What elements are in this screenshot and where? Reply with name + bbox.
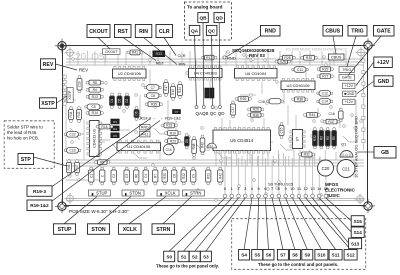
transistor Q1	[340, 141, 353, 157]
wire R19-3	[52, 119, 151, 187]
svg-text:R35: R35	[151, 103, 157, 107]
connector strip XSTP	[67, 88, 73, 103]
callout CLR	[156, 25, 173, 38]
svg-text:10: 10	[290, 186, 295, 191]
diode D3	[111, 119, 119, 124]
svg-text:TRIG: TRIG	[342, 68, 351, 72]
callout S5	[252, 250, 263, 261]
svg-text:STUP: STUP	[58, 227, 72, 233]
callout S11	[329, 250, 342, 261]
component R21 bottom row	[206, 167, 211, 185]
svg-text:QA: QA	[191, 28, 199, 34]
transistor Q2	[207, 143, 217, 148]
svg-text:D3: D3	[113, 120, 117, 124]
svg-text:(C) 2006 MUSIC FROM OUTER SPAC: (C) 2006 MUSIC FROM OUTER SPACE	[286, 48, 348, 52]
svg-text:D8: D8	[185, 139, 189, 143]
svg-text:R27: R27	[322, 75, 328, 79]
internal label STUP	[89, 190, 111, 196]
svg-text:C8: C8	[151, 94, 155, 98]
svg-text:GB: GB	[381, 150, 389, 156]
svg-text:R29: R29	[322, 68, 328, 72]
resistor R27	[317, 74, 333, 79]
svg-text:R19-3 →: R19-3 →	[140, 115, 156, 120]
svg-text:GND: GND	[378, 79, 390, 85]
svg-text:No hole on PCB.: No hole on PCB.	[7, 136, 39, 141]
svg-text:C5: C5	[91, 105, 95, 109]
svg-text:CBUS: CBUS	[331, 56, 342, 60]
wire S7	[272, 198, 283, 250]
pad +12V b	[343, 99, 356, 104]
diode D5	[117, 93, 122, 108]
svg-text:C21: C21	[342, 166, 350, 171]
resistor R36	[248, 113, 264, 118]
svg-text:REV 03: REV 03	[249, 53, 265, 58]
svg-text:RST: RST	[118, 29, 129, 35]
svg-text:13: 13	[310, 186, 315, 191]
callout XCLK	[119, 224, 142, 235]
svg-text:C11: C11	[297, 68, 303, 72]
wire S8	[279, 198, 295, 250]
dashed box To analog board	[184, 2, 231, 40]
resistor R37	[323, 119, 340, 124]
svg-text:R49: R49	[201, 142, 205, 148]
svg-text:PCB SIZE W-6.30" X H-3.30": PCB SIZE W-6.30" X H-3.30"	[69, 209, 129, 214]
svg-text:R3: R3	[326, 136, 330, 140]
svg-text:R41: R41	[132, 51, 138, 55]
wire XSTP	[57, 96, 68, 103]
wire R19-1and2	[52, 121, 160, 202]
capacitor C12	[317, 91, 333, 97]
svg-text:+12V: +12V	[345, 84, 354, 88]
callout CKOUT	[87, 25, 110, 38]
callout RIN	[135, 25, 152, 38]
fiducial bottom-right	[355, 194, 366, 205]
resistor R26	[248, 107, 264, 112]
svg-text:GATE: GATE	[342, 76, 353, 80]
pad CKOUT	[103, 49, 121, 55]
wire GATE	[348, 36, 381, 76]
svg-text:R10: R10	[170, 131, 176, 135]
resistor R3a	[319, 128, 324, 149]
svg-text:R4: R4	[93, 88, 97, 92]
svg-text:QD: QD	[216, 16, 224, 22]
callout QB	[198, 13, 209, 23]
svg-text:U2 CD40106: U2 CD40106	[118, 71, 142, 76]
svg-text:R37: R37	[328, 120, 334, 124]
svg-text:RND: RND	[227, 55, 236, 60]
capacitor C24 bottom	[100, 167, 105, 185]
capacitor C5	[85, 104, 103, 110]
internal label STRN	[183, 190, 205, 196]
resistor R18	[161, 123, 177, 128]
callout GATE	[374, 26, 395, 37]
svg-text:STON: STON	[91, 227, 106, 233]
svg-text:C22: C22	[69, 133, 75, 137]
callout +12V	[374, 57, 393, 68]
svg-text:C23: C23	[69, 149, 75, 153]
svg-text:R19-3: R19-3	[33, 189, 46, 195]
svg-text:D9: D9	[113, 134, 117, 138]
svg-text:S1: S1	[181, 254, 187, 259]
callout R19-1and2	[27, 200, 52, 211]
svg-text:R30: R30	[306, 56, 312, 60]
svg-text:QAQB QC QD: QAQB QC QD	[196, 111, 226, 116]
callout S6	[263, 250, 274, 261]
svg-text:QB: QB	[199, 16, 207, 22]
wire S2	[195, 198, 239, 251]
pad TRIG	[339, 67, 355, 73]
svg-text:▖ XCLK: ▖ XCLK	[159, 191, 176, 196]
component R7 bottom row	[153, 167, 158, 185]
capacitor C21 electrolytic	[337, 160, 355, 178]
callout QD	[214, 13, 225, 23]
resistor R35	[145, 102, 162, 107]
wire RST	[123, 38, 156, 61]
diode D9	[111, 133, 119, 138]
svg-text:R5: R5	[332, 136, 336, 140]
svg-text:CD4013 U3: CD4013 U3	[92, 129, 96, 148]
svg-text:REV: REV	[79, 67, 88, 72]
svg-text:S9: S9	[304, 253, 310, 258]
wire QA	[195, 35, 197, 106]
svg-text:QC: QC	[208, 28, 216, 34]
svg-text:CLR: CLR	[159, 29, 170, 35]
svg-text:S10: S10	[317, 253, 326, 258]
capacitor C18	[267, 99, 284, 104]
pad CBUS dark	[329, 54, 345, 60]
svg-text:14: 14	[317, 186, 322, 191]
dashed note box solder STP	[4, 121, 54, 169]
svg-text:R23: R23	[170, 139, 176, 143]
svg-text:CBUS: CBUS	[325, 29, 340, 35]
component R20 bottom row	[162, 167, 167, 185]
component C6 bottom row	[172, 167, 177, 185]
capacitor C15	[279, 123, 284, 139]
svg-text:C7: C7	[151, 86, 155, 90]
svg-text:To analog board: To analog board	[187, 5, 223, 10]
pad numbers 0-15	[224, 186, 329, 191]
wire RIN	[144, 38, 178, 65]
svg-text:S12: S12	[347, 253, 356, 258]
svg-text:U3 CD40106: U3 CD40106	[286, 83, 310, 88]
svg-text:R26: R26	[253, 108, 259, 112]
resistor R33 dark	[153, 51, 165, 57]
svg-text:R44: R44	[69, 111, 73, 117]
svg-text:R19-1&2: R19-1&2	[30, 203, 49, 208]
callout S14	[351, 227, 364, 238]
svg-text:XSTP: XSTP	[41, 101, 55, 107]
svg-text:R28: R28	[284, 56, 290, 60]
callout S0	[164, 251, 175, 262]
diode D10	[210, 88, 214, 98]
svg-text:TRIG: TRIG	[351, 29, 363, 35]
svg-text:S13: S13	[351, 241, 360, 246]
callout S9	[302, 250, 313, 261]
op IC U2 CD40106	[113, 66, 147, 80]
svg-text:U7: U7	[296, 137, 300, 142]
IC U7	[290, 130, 305, 149]
svg-text:15: 15	[324, 186, 329, 191]
pads QA QB QC QD	[195, 106, 222, 109]
mounting hole bottom-right	[361, 199, 375, 213]
IC U1 CD40106	[117, 140, 161, 153]
capacitor C16v	[339, 108, 344, 122]
fiducial top-right	[356, 47, 367, 58]
svg-text:C17: C17	[231, 106, 235, 112]
wire RND	[226, 36, 261, 57]
diode D1	[110, 93, 115, 108]
callout STON	[88, 224, 110, 235]
callout STP	[18, 154, 34, 165]
svg-text:R32: R32	[313, 135, 317, 141]
resistor R12	[202, 55, 217, 60]
svg-text:C6: C6	[172, 174, 176, 178]
IC U5 CD4514	[213, 127, 271, 153]
svg-text:ELECTRONIC: ELECTRONIC	[325, 188, 356, 193]
wire GB	[358, 151, 374, 153]
capacitor C7	[144, 85, 161, 91]
svg-text:R42: R42	[218, 173, 222, 179]
callout QA	[189, 25, 200, 35]
svg-text:S8: S8	[292, 253, 298, 258]
wire QB	[202, 23, 205, 106]
capacitor C20 electrolytic	[318, 160, 334, 176]
capacitor C22	[64, 132, 81, 138]
svg-text:These go to the control and po: These go to the control and pot panels.	[258, 262, 338, 267]
svg-text:R34: R34	[309, 113, 315, 117]
component R22 bottom row	[181, 167, 186, 185]
svg-text:CKOUT: CKOUT	[89, 29, 108, 35]
wire STRN	[163, 197, 192, 224]
svg-text:C15: C15	[280, 127, 284, 133]
component C1 bottom row	[89, 167, 94, 185]
svg-text:12: 12	[304, 186, 309, 191]
IC U3 CD4013	[87, 121, 102, 157]
resistor R38	[292, 97, 308, 102]
svg-text:R3: R3	[319, 136, 323, 140]
wire S1	[184, 198, 232, 251]
wire S4	[244, 198, 252, 250]
callout XSTP	[40, 98, 57, 109]
svg-text:R8: R8	[93, 81, 97, 85]
svg-text:R17: R17	[164, 85, 168, 91]
svg-text:← R19-1&2: ← R19-1&2	[160, 115, 182, 120]
svg-text:XCLK: XCLK	[123, 227, 137, 233]
callout GB right	[374, 147, 396, 159]
wire +12V	[356, 62, 374, 86]
pad GATE	[339, 75, 355, 81]
wire CKOUT	[98, 38, 110, 50]
resistor R31	[299, 152, 315, 157]
svg-text:S6: S6	[266, 253, 272, 258]
trace network	[64, 51, 364, 201]
resistor R44	[69, 107, 74, 123]
component C2 bottom row	[111, 167, 116, 185]
capacitor C14	[317, 99, 333, 105]
svg-text:R39: R39	[240, 97, 246, 101]
resistor R47	[75, 160, 80, 176]
wire CBUS	[333, 36, 336, 54]
IC U6 CD4094	[235, 66, 278, 81]
mounting hole bottom-left	[55, 199, 69, 213]
svg-text:R20: R20	[163, 173, 167, 179]
svg-text:S15: S15	[354, 219, 363, 224]
svg-text:S3: S3	[203, 254, 209, 259]
wire REV	[56, 64, 78, 70]
svg-text:D5: D5	[118, 98, 122, 102]
wire QC	[212, 35, 213, 106]
resistor R9	[95, 160, 110, 165]
mounting hole top-left	[55, 39, 69, 53]
resistor R3b	[325, 128, 330, 149]
diode D4	[111, 126, 119, 131]
svg-text:R7: R7	[153, 174, 157, 178]
svg-text:R•11: R•11	[141, 133, 149, 137]
wire S11	[299, 198, 336, 250]
diode D8	[185, 134, 190, 149]
svg-text:R36: R36	[253, 113, 259, 117]
svg-text:U1 CD40106: U1 CD40106	[127, 144, 151, 149]
internal label XCLK	[157, 190, 179, 196]
wire STP	[34, 157, 68, 166]
callout REV	[41, 59, 56, 70]
callout RND	[261, 26, 281, 37]
svg-text:D6: D6	[135, 111, 139, 115]
wire S10	[292, 198, 321, 250]
svg-text:U4 CD40193: U4 CD40193	[194, 71, 218, 76]
IC U4 CD40193	[189, 66, 223, 80]
capacitor C23	[64, 148, 81, 154]
pad RND on board	[223, 56, 226, 59]
svg-text:R12: R12	[206, 56, 212, 60]
svg-text:▖ STRN: ▖ STRN	[185, 191, 202, 196]
svg-text:C10: C10	[166, 148, 172, 152]
svg-text:C4: C4	[144, 174, 148, 178]
resistor R10	[165, 131, 181, 136]
fiducial top-left	[65, 47, 76, 58]
resistor R16	[96, 124, 113, 129]
resistor R24	[178, 82, 183, 99]
wire S13	[312, 198, 348, 243]
capacitor C10	[163, 144, 174, 155]
svg-text:CLR: CLR	[178, 53, 186, 58]
svg-text:R24: R24	[178, 87, 182, 93]
wire STON	[98, 197, 131, 224]
svg-text:S0: S0	[166, 254, 172, 259]
svg-text:R14: R14	[92, 111, 98, 115]
svg-text:C1: C1	[89, 174, 93, 178]
svg-text:S2: S2	[192, 254, 198, 259]
svg-text:+12V: +12V	[377, 60, 390, 66]
svg-text:R21: R21	[206, 173, 210, 179]
callout S8	[289, 250, 300, 261]
callout S7	[277, 250, 288, 261]
svg-text:S11: S11	[332, 253, 340, 258]
svg-text:XSTP: XSTP	[68, 90, 72, 100]
callout S3	[200, 251, 211, 262]
fiducial bottom-left	[65, 193, 76, 204]
capacitor C17	[231, 101, 236, 118]
svg-text:R31: R31	[304, 153, 310, 157]
component C4 bottom row	[143, 167, 148, 185]
svg-text:■GND: ■GND	[344, 92, 355, 96]
wire STUP	[64, 197, 97, 224]
svg-text:RND: RND	[141, 126, 149, 130]
resistor R13	[86, 94, 103, 99]
svg-text:Solder STP wire to: Solder STP wire to	[7, 125, 43, 130]
svg-text:S7: S7	[280, 253, 286, 258]
resistor R41	[127, 50, 143, 55]
svg-text:C14: C14	[322, 100, 328, 104]
svg-text:Q1: Q1	[341, 141, 347, 146]
svg-text:S5: S5	[254, 253, 260, 258]
wire S12	[306, 198, 351, 250]
svg-text:R46: R46	[67, 164, 71, 170]
svg-text:D2: D2	[125, 98, 129, 102]
resistor R45	[77, 107, 82, 123]
svg-text:R13: R13	[92, 95, 98, 99]
component R6 bottom row	[134, 167, 139, 185]
callout CBUS	[323, 26, 343, 37]
pad RND2	[140, 125, 151, 130]
wire QD	[218, 23, 221, 106]
svg-text:R6: R6	[134, 174, 138, 178]
resistor R8	[86, 80, 103, 85]
electrolytic C13	[205, 88, 209, 98]
wire S15	[326, 198, 351, 221]
svg-text:S4: S4	[241, 253, 247, 258]
resistor R46	[67, 160, 72, 176]
resistor R34	[304, 113, 321, 118]
callout S12	[344, 250, 357, 261]
resistor R15	[171, 84, 176, 101]
component R42 bottom row	[218, 167, 223, 185]
wire CLR	[164, 38, 176, 56]
svg-text:R18: R18	[166, 124, 172, 128]
wire S0	[169, 198, 225, 251]
wire S14	[319, 198, 351, 232]
svg-text:GATE: GATE	[377, 29, 392, 35]
svg-text:REV: REV	[43, 62, 54, 68]
svg-text:C20: C20	[322, 166, 330, 171]
svg-text:C2: C2	[112, 174, 116, 178]
callout RST	[115, 25, 132, 38]
resistor R49	[200, 135, 205, 155]
svg-text:R45: R45	[77, 111, 81, 117]
pad RB11	[140, 132, 151, 137]
svg-text:STRN: STRN	[156, 227, 170, 233]
svg-text:STP: STP	[21, 157, 32, 163]
svg-text:R33: R33	[156, 52, 162, 56]
resistor R3c	[332, 128, 337, 149]
resistor R48	[192, 137, 197, 157]
mounting hole top-right	[361, 38, 375, 52]
resistor R39	[235, 97, 251, 102]
via pads	[63, 51, 365, 202]
callout STUP	[54, 224, 76, 235]
diode D6	[134, 107, 139, 121]
svg-text:S14: S14	[354, 230, 363, 235]
callout R19-3	[27, 186, 52, 197]
svg-text:D1: D1	[110, 98, 114, 102]
svg-text:R48: R48	[192, 143, 196, 149]
callout GND	[374, 76, 393, 87]
capacitor C19	[77, 76, 82, 93]
internal label STON	[122, 190, 144, 196]
diode D7	[173, 110, 181, 114]
resistor R32	[313, 128, 318, 149]
svg-text:R16: R16	[101, 125, 107, 129]
